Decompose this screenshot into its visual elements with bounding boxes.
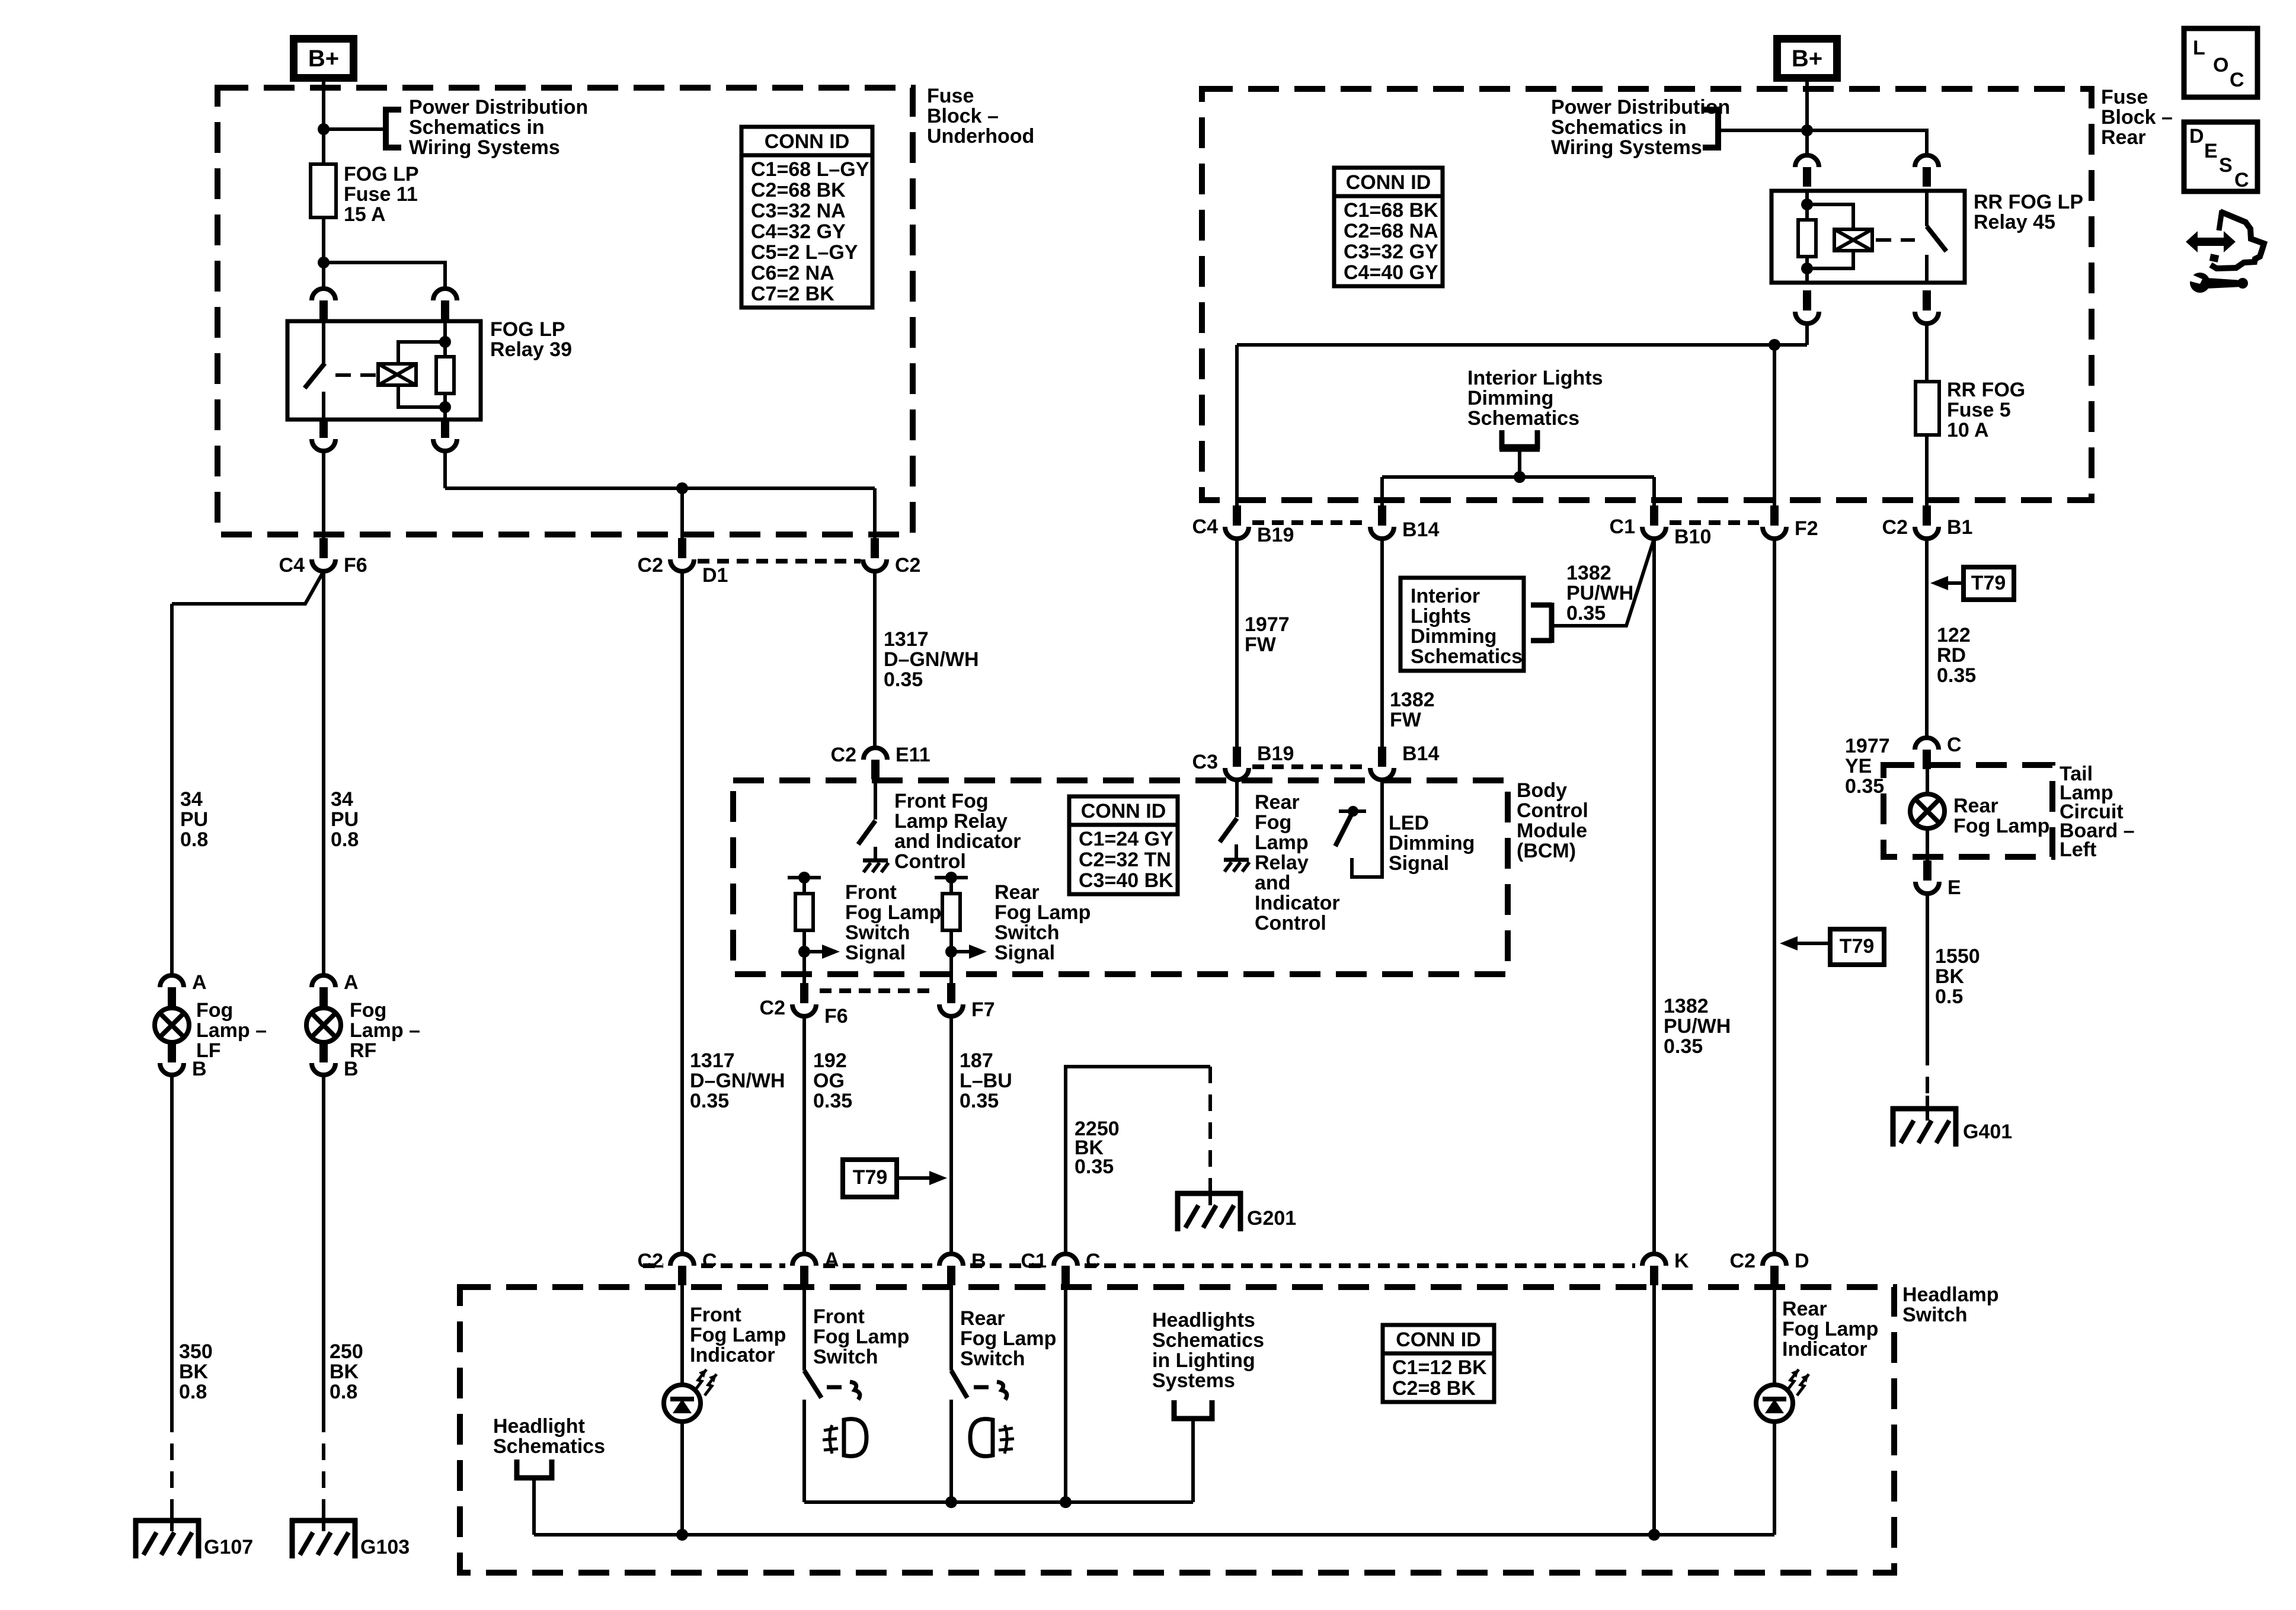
node junction to power distribution reference <box>318 123 330 135</box>
svg-text:C2: C2 <box>1882 516 1908 539</box>
relay45 coil symbol <box>1834 229 1872 251</box>
front fog relay control stub <box>874 847 877 860</box>
LED dimming signal tick <box>1339 809 1366 813</box>
svg-text:PU: PU <box>180 808 208 831</box>
ground G107 <box>170 1507 174 1531</box>
wire bus to B10 <box>1652 477 1656 507</box>
BCM dashed box <box>733 780 1508 974</box>
svg-text:1977: 1977 <box>1245 613 1290 636</box>
svg-text:Schematics in: Schematics in <box>409 116 545 139</box>
wire C1/C ground column <box>1064 1285 1067 1502</box>
svg-text:1977: 1977 <box>1845 735 1890 757</box>
svg-text:Fog Lamp: Fog Lamp <box>690 1324 786 1346</box>
svg-text:LED: LED <box>1389 812 1429 834</box>
node relay39 coil bottom <box>439 401 451 413</box>
svg-text:A: A <box>344 971 359 994</box>
svg-text:Control: Control <box>1255 912 1326 934</box>
wire B14 column to B14 <box>1380 539 1384 748</box>
connector C1/B10 <box>1642 527 1666 539</box>
svg-text:G401: G401 <box>1963 1121 2012 1143</box>
svg-text:RR FOG: RR FOG <box>1947 379 2025 401</box>
svg-text:Front: Front <box>813 1305 865 1328</box>
svg-text:Block –: Block – <box>2101 106 2173 129</box>
svg-text:Power Distribution: Power Distribution <box>1551 96 1730 119</box>
dotted connector row headlamp <box>643 1263 663 1268</box>
rear fog relay control blade <box>1220 818 1237 842</box>
svg-text:B+: B+ <box>308 46 339 72</box>
icon car with double arrow <box>2186 231 2236 252</box>
relay45 link dashes <box>1876 238 1915 242</box>
wire E to ground G401 <box>1926 894 1929 1049</box>
dotted connector line B19 to B14 <box>1252 520 1367 525</box>
node branch to D1 <box>676 482 688 494</box>
ground G401 <box>1926 1096 1929 1119</box>
wire diagonal C4/F6 to left branch <box>172 571 324 604</box>
wire D1 column down to C <box>680 571 684 1254</box>
connector C1/C headlamp <box>1054 1254 1077 1266</box>
LED dimming signal blade <box>1335 811 1353 846</box>
svg-text:A: A <box>192 971 207 994</box>
svg-text:PU/WH: PU/WH <box>1664 1015 1731 1038</box>
wire C2 down to E11 <box>873 571 877 748</box>
connector F7 bottom of BCM <box>939 1004 963 1016</box>
svg-text:Fog Lamp: Fog Lamp <box>1782 1318 1878 1340</box>
wire 2250 BK from C1/C up and over <box>1066 1067 1210 1254</box>
svg-text:G103: G103 <box>360 1536 410 1558</box>
svg-text:C4=32 GY: C4=32 GY <box>751 220 846 243</box>
node front switch signal <box>798 946 810 958</box>
svg-text:122: 122 <box>1937 624 1971 646</box>
svg-text:RD: RD <box>1937 644 1966 667</box>
svg-text:C3=32 NA: C3=32 NA <box>751 200 846 222</box>
svg-text:C2=68 NA: C2=68 NA <box>1344 220 1438 242</box>
svg-text:Rear: Rear <box>1255 791 1300 814</box>
svg-text:Fog: Fog <box>1255 811 1291 834</box>
svg-text:C2: C2 <box>895 554 920 577</box>
connector C2/D headlamp <box>1763 1254 1786 1266</box>
wire B19 column to C3/B19 <box>1235 539 1239 748</box>
svg-text:Fuse: Fuse <box>927 85 974 107</box>
boxed reference Interior Lights Dimming Schematics <box>1400 578 1524 671</box>
svg-text:Fog Lamp: Fog Lamp <box>813 1326 909 1348</box>
wire B+ right down <box>1805 82 1809 155</box>
wire F7 column down to B <box>949 1016 953 1254</box>
svg-text:Wiring Systems: Wiring Systems <box>409 136 560 159</box>
svg-text:C2=68 BK: C2=68 BK <box>751 179 846 201</box>
svg-text:Fog Lamp: Fog Lamp <box>845 901 941 924</box>
svg-text:250: 250 <box>330 1340 363 1363</box>
relay45 switch contact lower <box>1925 255 1929 283</box>
fuse block underhood dashed box <box>218 88 913 534</box>
svg-text:B19: B19 <box>1257 524 1294 546</box>
svg-text:1317: 1317 <box>690 1049 735 1072</box>
svg-text:Interior: Interior <box>1411 585 1480 607</box>
relay39 coil loop upper <box>398 342 445 364</box>
wire bus to B14 <box>1380 477 1384 507</box>
wire junction to relay45 right pin <box>1807 130 1927 155</box>
svg-text:0.35: 0.35 <box>1937 664 1976 687</box>
wire B+ down through fuse to relay <box>322 82 325 289</box>
connector pin relay45 top-right <box>1915 155 1939 167</box>
node branch to F2 <box>1769 339 1780 351</box>
svg-text:O: O <box>2213 54 2228 76</box>
reference T79 arrow left to F2 wire <box>1830 929 1884 965</box>
svg-text:Fog: Fog <box>350 999 386 1022</box>
wire B1 column down to tail lamp <box>1925 539 1929 738</box>
svg-text:C1=68 L–GY: C1=68 L–GY <box>751 158 869 181</box>
svg-text:C2: C2 <box>831 744 856 766</box>
dotted connector line B19 to B14 (BCM) <box>1252 764 1367 769</box>
LED dimming signal hook wire <box>1352 780 1382 877</box>
dotted connector line D1 to C2 <box>698 559 861 564</box>
svg-text:187: 187 <box>960 1049 993 1072</box>
svg-text:Rear: Rear <box>1782 1298 1827 1320</box>
connector E tail lamp <box>1916 882 1939 894</box>
svg-text:Headlights: Headlights <box>1152 1309 1255 1331</box>
wire to power distribution bracket <box>324 127 383 131</box>
relay45 coil loop lower <box>1807 249 1853 268</box>
svg-text:in Lighting: in Lighting <box>1152 1349 1255 1372</box>
lamp Fog Lamp - RF <box>319 988 328 1009</box>
svg-text:Front: Front <box>690 1304 741 1326</box>
connector pin relay45 bottom-right <box>1915 312 1939 324</box>
rear fog switch signal resistor <box>949 878 953 895</box>
svg-text:PU: PU <box>331 808 359 831</box>
connector pin relay45 top-left <box>1795 155 1819 167</box>
relay39 switch contact lower <box>322 392 325 420</box>
svg-text:Body: Body <box>1517 779 1567 802</box>
svg-text:B+: B+ <box>1792 46 1822 72</box>
relay39 link dashes <box>335 373 377 377</box>
svg-text:Schematics in: Schematics in <box>1551 116 1687 139</box>
svg-text:C1=68 BK: C1=68 BK <box>1344 199 1438 222</box>
svg-text:C2=32 TN: C2=32 TN <box>1079 849 1171 871</box>
wire fuse 5 to B1 <box>1925 435 1929 507</box>
svg-text:B: B <box>192 1058 207 1080</box>
connector pin relay39 bottom-left <box>312 439 335 451</box>
svg-text:C2: C2 <box>638 1250 663 1272</box>
svg-text:Power Distribution: Power Distribution <box>409 96 588 119</box>
table CONN ID underhood <box>741 127 872 308</box>
svg-text:Indicator: Indicator <box>690 1344 775 1366</box>
svg-text:C1=24 GY: C1=24 GY <box>1079 828 1173 850</box>
svg-text:Front Fog: Front Fog <box>894 790 989 812</box>
LED rear fog lamp indicator <box>1756 1385 1793 1422</box>
svg-text:K: K <box>1674 1250 1689 1272</box>
svg-text:CONN ID: CONN ID <box>1396 1329 1481 1351</box>
svg-text:C1: C1 <box>1021 1250 1047 1272</box>
rear fog switch lower contact <box>949 1400 953 1502</box>
svg-text:Block –: Block – <box>927 105 999 127</box>
svg-text:1550: 1550 <box>1935 945 1980 968</box>
svg-text:F6: F6 <box>344 554 367 577</box>
relay45 resistor <box>1798 220 1816 257</box>
wire rear fog lamp to E <box>1926 828 1929 863</box>
svg-text:Interior Lights: Interior Lights <box>1467 367 1603 389</box>
svg-text:CONN ID: CONN ID <box>1346 171 1431 194</box>
svg-text:0.35: 0.35 <box>884 668 923 691</box>
wire front fog switch upper <box>802 1285 806 1371</box>
ground G103 <box>322 1507 325 1531</box>
svg-text:Headlamp: Headlamp <box>1902 1283 1999 1306</box>
mini ground front fog control <box>863 859 888 863</box>
rear fog switch blade <box>951 1371 967 1398</box>
connector B fog lamp LF <box>160 1063 184 1075</box>
wire into rear fog lamp <box>1926 769 1929 795</box>
svg-text:Headlight: Headlight <box>493 1415 585 1438</box>
svg-text:BK: BK <box>179 1361 209 1383</box>
node junction below fuse <box>318 257 330 268</box>
front fog relay control switch wire <box>874 779 877 820</box>
svg-text:Switch: Switch <box>960 1347 1025 1370</box>
wire F6 column down to A <box>802 1016 806 1254</box>
relay39 coil loop lower <box>398 385 445 407</box>
svg-text:Signal: Signal <box>845 942 906 964</box>
svg-text:L: L <box>2193 37 2205 59</box>
front fog switch signal tick <box>788 876 821 879</box>
svg-text:0.35: 0.35 <box>960 1090 999 1112</box>
svg-text:C6=2 NA: C6=2 NA <box>751 262 834 284</box>
connector C3/B19 <box>1225 768 1249 780</box>
svg-text:B1: B1 <box>1947 516 1972 539</box>
svg-text:Schematics: Schematics <box>1152 1329 1264 1352</box>
svg-text:Lamp Relay: Lamp Relay <box>894 810 1008 833</box>
svg-text:Lamp –: Lamp – <box>350 1019 420 1042</box>
svg-text:D1: D1 <box>702 564 728 587</box>
svg-text:0.35: 0.35 <box>690 1090 729 1112</box>
connector C2/D1 <box>670 559 694 571</box>
svg-text:Schematics: Schematics <box>1467 407 1579 430</box>
lamp rear fog lamp <box>1910 794 1945 828</box>
svg-text:350: 350 <box>179 1340 213 1363</box>
svg-text:Wiring Systems: Wiring Systems <box>1551 136 1702 159</box>
wire to right power distribution bracket <box>1719 129 1807 132</box>
svg-text:D: D <box>2189 125 2204 148</box>
dimming bus B14 to B10 <box>1382 475 1654 479</box>
svg-text:G201: G201 <box>1247 1207 1296 1230</box>
connector C2/F6 bottom of BCM <box>792 1004 816 1016</box>
svg-text:Switch: Switch <box>1902 1304 1968 1326</box>
wire relay39 output right down <box>443 451 447 488</box>
mini ground rear fog control <box>1224 858 1249 862</box>
svg-text:Switch: Switch <box>845 921 910 944</box>
relay FOG LP Relay 39 box <box>287 321 481 420</box>
wire rear indicator to bus <box>1773 1422 1776 1535</box>
rear fog switch signal tick <box>935 876 968 879</box>
connector K headlamp <box>1642 1254 1666 1266</box>
rear fog relay control stub <box>1235 844 1238 858</box>
svg-text:Systems: Systems <box>1152 1369 1235 1392</box>
node junction right power distribution <box>1801 124 1813 136</box>
svg-text:0.35: 0.35 <box>1566 602 1606 625</box>
svg-text:Fog Lamp: Fog Lamp <box>994 901 1091 924</box>
svg-text:Control: Control <box>1517 799 1588 822</box>
svg-text:L–BU: L–BU <box>960 1070 1012 1092</box>
svg-text:34: 34 <box>180 788 203 811</box>
svg-text:10 A: 10 A <box>1947 419 1989 441</box>
svg-text:Indicator: Indicator <box>1255 892 1340 914</box>
connector C4/B19 rear <box>1225 527 1249 539</box>
connector B fog lamp RF <box>312 1063 335 1075</box>
svg-text:1382: 1382 <box>1390 689 1435 711</box>
svg-text:BK: BK <box>1935 965 1965 988</box>
svg-text:C2: C2 <box>638 554 663 577</box>
reference bracket interior lights dimming <box>1502 430 1537 447</box>
svg-text:FW: FW <box>1245 633 1277 656</box>
svg-text:C: C <box>1947 734 1962 756</box>
relay45 coil wire <box>1805 191 1809 283</box>
svg-text:Schematics: Schematics <box>493 1435 605 1458</box>
headlamp switch dashed box <box>460 1287 1894 1573</box>
wire right branch down to RF lamp <box>322 571 325 975</box>
relay45 switch contact upper <box>1925 191 1929 226</box>
wire B10/K column down <box>1652 539 1656 1254</box>
svg-text:BK: BK <box>330 1361 359 1383</box>
svg-text:C2: C2 <box>760 997 785 1019</box>
fuse RR FOG Fuse 5 10A <box>1916 382 1939 435</box>
table CONN ID headlamp switch <box>1383 1325 1494 1402</box>
svg-text:T79: T79 <box>1840 935 1875 958</box>
wire D column to rear indicator <box>1773 1285 1776 1385</box>
svg-text:C5=2 L–GY: C5=2 L–GY <box>751 241 858 264</box>
svg-text:Fuse 5: Fuse 5 <box>1947 399 2011 421</box>
svg-text:C: C <box>1086 1250 1101 1272</box>
connector pin relay39 bottom-right <box>433 439 457 451</box>
svg-text:Switch: Switch <box>813 1346 878 1368</box>
svg-text:1382: 1382 <box>1664 995 1709 1017</box>
svg-text:0.35: 0.35 <box>1664 1035 1703 1058</box>
svg-text:C2=8 BK: C2=8 BK <box>1392 1377 1476 1400</box>
relay39 switch contact upper <box>322 321 325 363</box>
fuse FOG LP Fuse 11 15A <box>311 164 336 217</box>
svg-text:D–GN/WH: D–GN/WH <box>690 1070 785 1092</box>
connector C2/E11 <box>864 748 887 760</box>
wire F2 column down <box>1773 539 1776 1254</box>
relay39 resistor <box>436 357 454 393</box>
off-page bracket Power Distribution right <box>1703 110 1718 148</box>
svg-text:C1=12 BK: C1=12 BK <box>1392 1356 1487 1379</box>
svg-text:Lights: Lights <box>1411 605 1471 628</box>
svg-text:T79: T79 <box>853 1166 888 1189</box>
LED front fog lamp indicator <box>664 1385 701 1422</box>
svg-text:D–GN/WH: D–GN/WH <box>884 648 979 671</box>
wire relay45 output down <box>1805 324 1809 345</box>
icon LOC box <box>2184 28 2257 97</box>
svg-text:FW: FW <box>1390 709 1422 731</box>
svg-text:and Indicator: and Indicator <box>894 830 1021 853</box>
connector pin relay39 top-left <box>312 289 335 300</box>
wire dimming bracket down <box>1518 449 1521 477</box>
relay45 switch blade <box>1927 226 1946 251</box>
bracket right of dimming box <box>1531 603 1552 608</box>
svg-text:Relay: Relay <box>1255 852 1309 874</box>
dotted connector line F6 to F7 <box>820 988 936 993</box>
wire down to C2 connector <box>873 488 877 540</box>
svg-text:Dimming: Dimming <box>1467 387 1553 409</box>
front fog switch lower contact <box>802 1400 806 1502</box>
reference T79 with arrow right <box>843 1160 897 1197</box>
svg-text:and: and <box>1255 872 1290 894</box>
connector A fog lamp RF <box>312 975 335 987</box>
connector C2/C headlamp <box>670 1254 694 1266</box>
ground G201 <box>1208 1180 1212 1204</box>
svg-text:C3=40 BK: C3=40 BK <box>1079 869 1173 892</box>
node dimming junction <box>1514 471 1526 483</box>
svg-text:Front: Front <box>845 881 897 904</box>
fuse block rear dashed box <box>1202 89 2092 500</box>
svg-text:1317: 1317 <box>884 628 929 651</box>
svg-text:Rear: Rear <box>960 1307 1005 1330</box>
svg-text:Signal: Signal <box>994 942 1055 964</box>
relay39 coil symbol <box>378 364 416 385</box>
svg-text:E: E <box>2204 140 2218 162</box>
svg-text:B: B <box>344 1058 359 1080</box>
svg-text:(BCM): (BCM) <box>1517 840 1576 862</box>
front fog relay control blade <box>858 821 875 844</box>
arrow rear fog lamp switch signal <box>951 950 970 953</box>
svg-text:Relay 39: Relay 39 <box>490 338 572 361</box>
power symbol B+ (left battery feed) <box>290 35 357 82</box>
svg-text:0.8: 0.8 <box>179 1381 207 1403</box>
node rear switch signal <box>945 946 957 958</box>
wire down to D1 connector <box>680 488 684 540</box>
svg-text:Switch: Switch <box>994 921 1060 944</box>
svg-text:C: C <box>2234 169 2249 191</box>
connector pin relay39 top-right <box>433 289 457 300</box>
svg-text:15 A: 15 A <box>344 203 386 226</box>
svg-text:192: 192 <box>813 1049 847 1072</box>
svg-text:CONN ID: CONN ID <box>1081 800 1166 822</box>
icon front fog lamp <box>830 1425 832 1454</box>
svg-text:Rear: Rear <box>2101 126 2146 149</box>
svg-text:OG: OG <box>813 1070 845 1092</box>
svg-text:Fuse: Fuse <box>2101 86 2148 108</box>
wire LF lamp to ground <box>170 1075 174 1416</box>
svg-text:F6: F6 <box>824 1005 848 1028</box>
dashed wire to G201 <box>1208 1067 1212 1180</box>
switch common bus <box>804 1500 1193 1504</box>
wire relay output horizontal to D1 and C2 <box>445 486 875 490</box>
svg-text:B19: B19 <box>1257 742 1294 765</box>
diagonal 1382 PU/WH to dimming reference <box>1552 539 1654 626</box>
wire left branch down to LF lamp <box>170 604 174 975</box>
off-page bracket Power Distribution <box>386 110 401 148</box>
svg-text:0.35: 0.35 <box>1075 1156 1114 1178</box>
svg-text:0.8: 0.8 <box>330 1381 357 1403</box>
wire RF lamp to ground <box>322 1075 325 1416</box>
svg-text:FOG LP: FOG LP <box>344 163 419 185</box>
svg-text:C2: C2 <box>1730 1250 1755 1272</box>
wire relay39 output left down to C4/F6 <box>322 451 325 540</box>
svg-text:F7: F7 <box>971 998 995 1021</box>
svg-text:E11: E11 <box>896 744 930 766</box>
svg-text:1382: 1382 <box>1566 562 1611 584</box>
arrow front fog lamp switch signal <box>804 950 823 953</box>
reference T79 arrow left to B1 wire <box>1964 567 2014 600</box>
svg-text:Schematics: Schematics <box>1411 645 1523 668</box>
svg-text:C4=40 GY: C4=40 GY <box>1344 261 1438 284</box>
node relay39 coil top <box>439 336 451 348</box>
connector A headlamp <box>792 1254 816 1266</box>
svg-text:0.8: 0.8 <box>331 828 359 851</box>
svg-text:E: E <box>1948 876 1961 899</box>
svg-text:C: C <box>2230 69 2244 91</box>
svg-text:Relay 45: Relay 45 <box>1974 211 2055 233</box>
svg-text:S: S <box>2219 154 2233 177</box>
svg-text:Module: Module <box>1517 820 1587 842</box>
svg-text:Fog: Fog <box>196 999 233 1022</box>
svg-text:T79: T79 <box>1971 572 2006 594</box>
